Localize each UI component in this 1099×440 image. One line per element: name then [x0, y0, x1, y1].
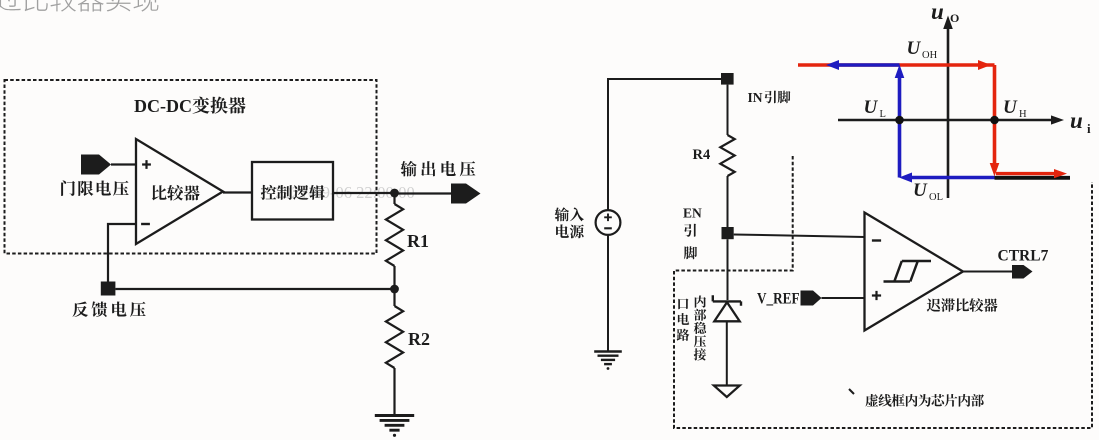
label DC-DC converter title: [134, 96, 246, 116]
label 比较器: [152, 185, 200, 201]
ground under source: [594, 350, 622, 352]
svg-text:u: u: [1070, 108, 1083, 133]
graph horizontal axis u_i: [838, 119, 1053, 122]
wire flag to comparator + input: [111, 163, 136, 165]
output flag CTRL7: [1012, 265, 1033, 279]
node EN square: [722, 227, 734, 239]
node feedback square: [101, 282, 116, 296]
svg-text:L: L: [880, 109, 886, 120]
input flag 门限电压: [81, 155, 111, 175]
svg-text:U: U: [1003, 97, 1018, 118]
node U_L dot: [895, 116, 904, 125]
blue bottom segment with left arrow: [909, 176, 995, 180]
plus input mark: [142, 160, 151, 169]
svg-text:u: u: [931, 0, 944, 24]
svg-text:OL: OL: [929, 192, 943, 203]
svg-text:R4: R4: [693, 147, 711, 163]
label 反馈电压: [72, 301, 145, 317]
wire R4 to EN node: [727, 176, 729, 227]
svg-text:U: U: [913, 180, 928, 201]
op-amp comparator U1: [136, 139, 223, 244]
label 门限电压: [61, 180, 129, 196]
wire IN node to R4: [727, 85, 729, 135]
dashed box DC-DC converter: [5, 80, 377, 254]
svg-text:R1: R1: [407, 231, 429, 251]
voltage source 输入电源: [596, 210, 621, 235]
svg-text:OH: OH: [922, 50, 938, 61]
svg-text:DC-DC: DC-DC: [134, 96, 192, 116]
svg-text:EN: EN: [683, 206, 702, 221]
wire zener to open terminal: [726, 321, 728, 385]
label 输入电源: [555, 207, 584, 238]
dashed chip-internal boundary: [674, 156, 1092, 428]
output flag 输出电压 arrow: [451, 184, 481, 204]
box control logic 控制逻辑: [252, 162, 333, 220]
svg-text:R2: R2: [408, 329, 430, 349]
red vertical at U_H with down arrow: [993, 65, 997, 163]
stray tick mark: [849, 389, 854, 394]
label 虚线框内为芯片内部: [865, 394, 984, 407]
red arrow right on top: [978, 60, 991, 70]
zener diode (internal regulator clamp): [713, 295, 741, 306]
blue vertical at U_L with up arrow: [898, 75, 902, 178]
svg-text:U: U: [907, 38, 922, 59]
hysteresis symbol: [884, 261, 932, 282]
wire source to IN node: [608, 79, 721, 210]
minus input mark: [872, 239, 881, 241]
red bottom segment with right arrow: [996, 172, 1056, 175]
open terminal triangle: [714, 386, 740, 398]
ground left circuit: [375, 414, 414, 417]
svg-text:V_REF: V_REF: [757, 291, 800, 308]
label 输出电压: [401, 161, 476, 177]
wire comparator output to CTRL7 flag: [963, 271, 1012, 273]
wire EN node to hysteresis comparator minus input: [734, 235, 865, 238]
resistor R1: [393, 193, 395, 204]
black low-level line bottom right: [995, 176, 1071, 180]
label 控制逻辑: [261, 185, 325, 200]
minus input mark: [141, 223, 150, 225]
svg-text:CTRL7: CTRL7: [998, 248, 1049, 265]
red curve top segment: [798, 63, 995, 67]
op-amp hysteresis comparator U2: [865, 213, 964, 331]
blue overlay top segment with left arrow: [836, 63, 900, 67]
label 口电路 (vertical): [677, 299, 690, 341]
wire source to ground: [607, 235, 609, 351]
plus input mark: [872, 291, 881, 300]
svg-text:IN: IN: [748, 90, 763, 105]
wire EN node down to zener: [727, 239, 729, 300]
wire V_REF to plus input: [822, 297, 865, 299]
graph vertical axis u_O: [947, 26, 950, 198]
node output junction: [390, 189, 399, 198]
svg-text:H: H: [1019, 109, 1027, 120]
wire minus input to feedback node: [108, 224, 136, 282]
svg-text:i: i: [1087, 121, 1091, 136]
svg-text:U: U: [864, 97, 879, 118]
wire comparator output to control logic: [223, 191, 252, 193]
label EN 引 脚 (vertical): [683, 206, 702, 260]
node divider junction: [390, 285, 399, 294]
wire output node to output flag: [395, 192, 452, 194]
wire feedback square to divider junction: [115, 288, 394, 290]
node IN square: [721, 73, 734, 85]
label IN引脚: [748, 90, 791, 105]
resistor R4: [720, 135, 734, 176]
svg-text:O: O: [950, 11, 959, 25]
wire control logic to output node: [333, 192, 395, 194]
label 内部稳压接 (vertical): [694, 295, 707, 360]
node U_H dot: [990, 116, 999, 125]
resistor R2: [393, 289, 395, 306]
label 迟滞比较器: [927, 298, 998, 312]
header text 过比较器实现 (cut off at top): [0, 0, 158, 12]
